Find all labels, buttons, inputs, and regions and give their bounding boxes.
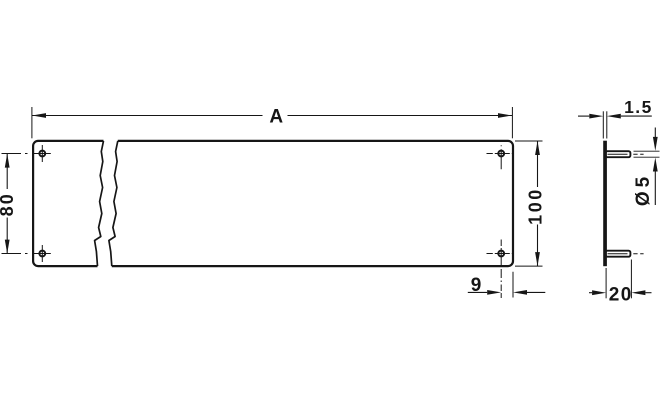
dimension A arrow left xyxy=(32,113,46,118)
dimension A arrow right xyxy=(498,113,512,118)
side view pin bottom xyxy=(606,251,631,257)
dimension 9 extension line right xyxy=(512,272,514,298)
side view pin top xyxy=(606,151,631,157)
dimension 20 extension line right xyxy=(630,260,632,299)
break line left xyxy=(95,141,104,266)
dimension 100 arrow down xyxy=(535,252,540,266)
svg-text:20: 20 xyxy=(609,285,633,306)
svg-text:Ø5: Ø5 xyxy=(633,173,654,206)
dimension 20 line left with arrow xyxy=(589,290,606,295)
dimension diameter 5 line upper with arrow xyxy=(653,128,658,151)
hole top-left xyxy=(34,145,51,162)
break line right xyxy=(109,141,118,266)
hole bottom-right xyxy=(487,251,513,257)
dimension 100 extension line bottom xyxy=(515,265,543,267)
centre line of hole bottom-right down to dimension 9 xyxy=(500,240,502,299)
dimension 100 extension line top xyxy=(515,140,543,142)
hole bottom-left xyxy=(34,245,51,262)
svg-text:1.5: 1.5 xyxy=(624,97,653,117)
svg-text:9: 9 xyxy=(471,275,482,296)
dimension 80 label xyxy=(0,192,17,216)
side view panel profile xyxy=(603,141,607,267)
dimension 80 line xyxy=(6,154,8,254)
dimension 20 extension line left xyxy=(605,268,607,298)
centre line of pin bottom xyxy=(608,253,644,255)
dimension 9 line right with arrow xyxy=(513,290,545,295)
dimension 80 arrow down xyxy=(5,240,10,254)
hole top-right xyxy=(487,145,513,169)
dimension diameter 5 label xyxy=(633,173,654,206)
dimension A line xyxy=(32,115,512,117)
centre line of pin top xyxy=(608,153,644,155)
panel front view outline right part xyxy=(112,141,513,266)
centre line extension of hole top-left xyxy=(2,153,28,155)
dimension 100 label xyxy=(525,187,545,225)
centre line extension of hole bottom-left xyxy=(2,253,28,255)
dimension 1.5 extension line left xyxy=(602,111,604,138)
dimension 1.5 line right with arrow xyxy=(607,114,652,119)
dimension 9 line left with arrow xyxy=(468,290,501,295)
dimension 1.5 extension line right xyxy=(606,111,608,138)
svg-text:100: 100 xyxy=(525,187,545,225)
dimension diameter 5 line lower with arrow xyxy=(653,158,658,206)
dimension 1.5 line left with arrow xyxy=(578,114,603,119)
dimension 100 arrow up xyxy=(535,141,540,155)
dimension A extension line right xyxy=(511,107,513,138)
dimension diameter 5 extension line bottom xyxy=(634,156,660,158)
dimension diameter 5 extension line top xyxy=(634,150,660,152)
svg-text:80: 80 xyxy=(0,192,17,216)
svg-text:A: A xyxy=(269,106,283,127)
dimension 100 line xyxy=(537,141,539,266)
panel front view outline left part xyxy=(33,141,103,266)
dimension 20 line right with arrow xyxy=(631,290,651,295)
dimension 80 arrow up xyxy=(5,154,10,168)
dimension A extension line left xyxy=(31,107,33,138)
